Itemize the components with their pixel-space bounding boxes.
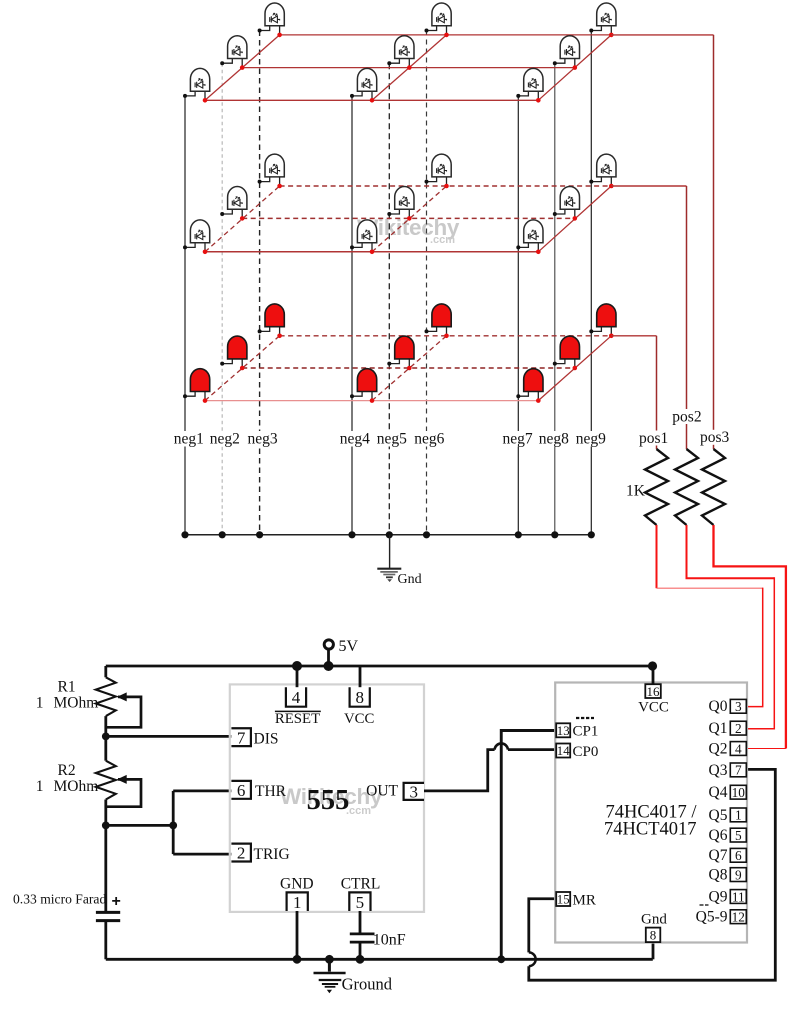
svg-text:neg8: neg8 bbox=[539, 431, 569, 448]
svg-text:555: 555 bbox=[307, 785, 350, 816]
svg-text:neg1: neg1 bbox=[174, 431, 204, 448]
svg-text:5V: 5V bbox=[339, 638, 359, 655]
svg-text:7: 7 bbox=[735, 763, 742, 778]
svg-text:neg7: neg7 bbox=[503, 431, 533, 448]
svg-text:9: 9 bbox=[735, 867, 742, 882]
svg-text:TRIG: TRIG bbox=[254, 846, 290, 863]
svg-text:VCC: VCC bbox=[638, 700, 669, 716]
svg-text:R1: R1 bbox=[58, 679, 76, 696]
svg-text:7: 7 bbox=[237, 728, 246, 747]
svg-text:74HCT4017: 74HCT4017 bbox=[604, 820, 697, 840]
svg-text:Q5: Q5 bbox=[709, 807, 728, 824]
svg-text:12: 12 bbox=[732, 909, 745, 924]
svg-text:4: 4 bbox=[292, 688, 301, 707]
svg-text:Q9: Q9 bbox=[709, 888, 728, 905]
svg-text:MOhm: MOhm bbox=[54, 778, 99, 795]
svg-text:neg9: neg9 bbox=[576, 431, 606, 448]
svg-text:DIS: DIS bbox=[254, 730, 279, 747]
svg-text:neg3: neg3 bbox=[248, 431, 278, 448]
svg-text:6: 6 bbox=[237, 781, 246, 800]
svg-text:MOhm: MOhm bbox=[54, 695, 99, 712]
svg-text:1: 1 bbox=[36, 778, 44, 795]
svg-text:pos2: pos2 bbox=[672, 408, 701, 425]
svg-text:Q2: Q2 bbox=[709, 740, 728, 757]
svg-text:11: 11 bbox=[732, 889, 745, 904]
svg-text:16: 16 bbox=[647, 684, 661, 699]
svg-text:15: 15 bbox=[557, 893, 570, 907]
svg-text:Q3: Q3 bbox=[709, 762, 728, 779]
svg-text:3: 3 bbox=[410, 783, 419, 802]
svg-text:CP1: CP1 bbox=[573, 724, 599, 740]
svg-text:1K: 1K bbox=[626, 483, 646, 500]
svg-text:Q0: Q0 bbox=[709, 698, 728, 715]
svg-text:VCC: VCC bbox=[344, 711, 375, 727]
svg-text:CP0: CP0 bbox=[573, 744, 599, 760]
svg-text:.ccm: .ccm bbox=[346, 805, 371, 817]
svg-text:pos1: pos1 bbox=[639, 430, 668, 447]
svg-text:8: 8 bbox=[355, 688, 364, 707]
svg-text:3: 3 bbox=[735, 699, 742, 714]
svg-text:2: 2 bbox=[735, 721, 742, 736]
svg-text:pos3: pos3 bbox=[700, 429, 730, 446]
svg-text:0.33 micro Farad: 0.33 micro Farad bbox=[13, 892, 106, 907]
svg-text:MR: MR bbox=[573, 892, 596, 908]
svg-text:GND: GND bbox=[280, 876, 314, 893]
svg-text:13: 13 bbox=[557, 724, 570, 738]
svg-text:RESET: RESET bbox=[275, 711, 320, 727]
svg-text:5: 5 bbox=[356, 893, 365, 912]
svg-text:1: 1 bbox=[735, 808, 742, 823]
svg-text:neg5: neg5 bbox=[377, 431, 407, 448]
svg-text:1: 1 bbox=[36, 695, 44, 712]
svg-text:Ground: Ground bbox=[342, 975, 393, 994]
svg-text:Q6: Q6 bbox=[709, 827, 728, 844]
svg-text:CTRL: CTRL bbox=[341, 876, 381, 893]
svg-text:Q5-9: Q5-9 bbox=[696, 909, 728, 926]
svg-text:neg2: neg2 bbox=[210, 431, 240, 448]
svg-text:4: 4 bbox=[735, 741, 742, 756]
svg-text:Q8: Q8 bbox=[709, 867, 728, 884]
svg-text:Q1: Q1 bbox=[709, 720, 728, 737]
svg-text:OUT: OUT bbox=[366, 783, 398, 800]
svg-text:THR: THR bbox=[255, 783, 287, 800]
svg-text:1: 1 bbox=[293, 893, 302, 912]
svg-text:14: 14 bbox=[557, 744, 570, 758]
svg-text:.ccm: .ccm bbox=[430, 234, 455, 246]
svg-text:5: 5 bbox=[735, 828, 742, 843]
svg-text:neg6: neg6 bbox=[414, 431, 444, 448]
svg-text:10: 10 bbox=[732, 785, 746, 800]
svg-text:8: 8 bbox=[650, 928, 657, 943]
svg-text:10nF: 10nF bbox=[373, 932, 406, 949]
svg-text:R2: R2 bbox=[58, 762, 76, 779]
svg-text:2: 2 bbox=[237, 844, 246, 863]
svg-text:+: + bbox=[112, 893, 121, 910]
svg-text:Gnd: Gnd bbox=[398, 572, 422, 587]
svg-text:neg4: neg4 bbox=[340, 431, 370, 448]
svg-text:Gnd: Gnd bbox=[641, 912, 667, 928]
svg-text:Q7: Q7 bbox=[709, 847, 728, 864]
svg-text:Q4: Q4 bbox=[709, 784, 728, 801]
svg-text:6: 6 bbox=[735, 848, 742, 863]
